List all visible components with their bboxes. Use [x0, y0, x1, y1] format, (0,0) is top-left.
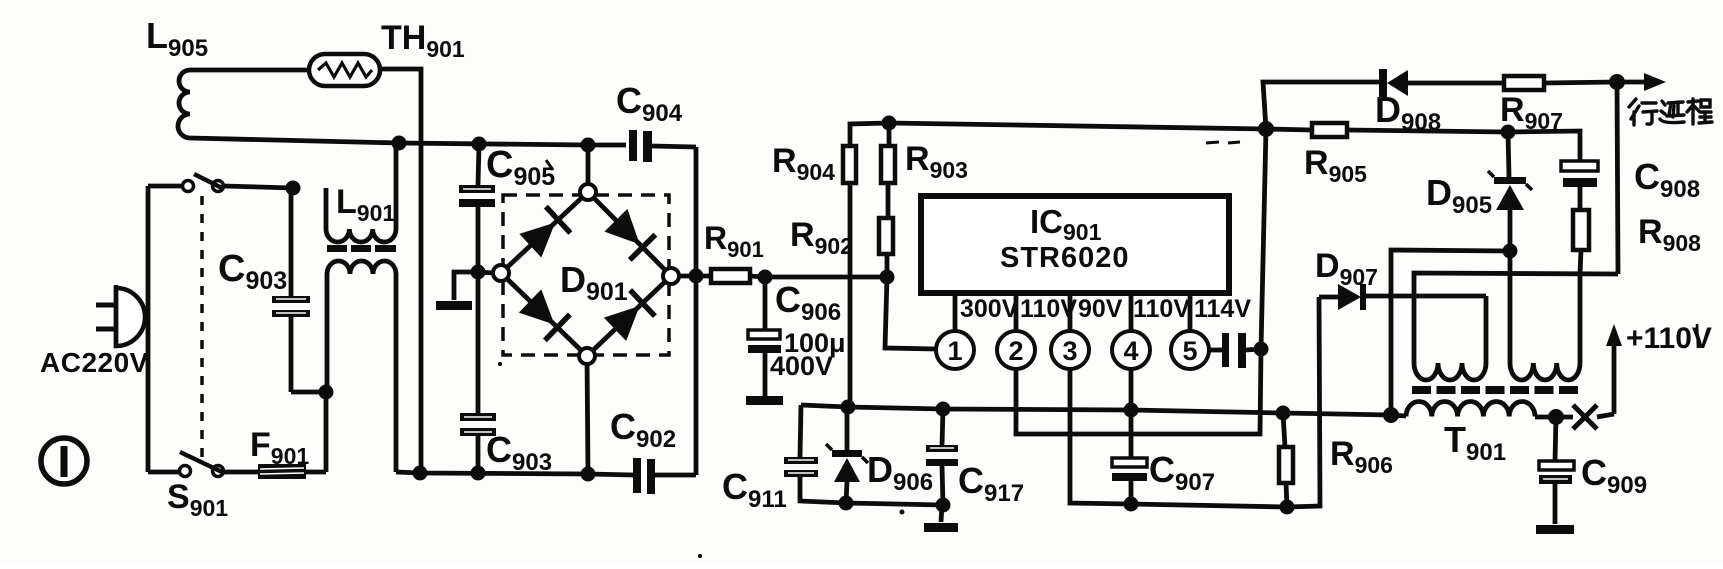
- junction dot (D905 anode): [1503, 244, 1518, 259]
- resistor R907: [1504, 76, 1617, 90]
- svg-text:+110V: +110V: [1626, 322, 1712, 355]
- label C909: [1581, 452, 1647, 499]
- junction dot (pin5 cap / vertical): [1254, 342, 1269, 357]
- chassis ground (C906): [746, 396, 783, 405]
- junction dot (bottom rail / bridge bottom): [581, 467, 596, 482]
- label R905: [1304, 144, 1367, 187]
- switch S901 bottom pole: [148, 452, 258, 477]
- svg-text:1: 1: [947, 336, 962, 366]
- pin voltage label 300V: [960, 295, 1019, 323]
- junction dot (TH901 / bottom rail): [413, 466, 428, 481]
- wire top feed line: [850, 123, 1266, 146]
- choke L901: [326, 143, 396, 472]
- chassis ground (bridge left): [436, 272, 478, 310]
- wire pin2 loop: [1016, 349, 1261, 434]
- junction dot (R906 / lower rail): [1280, 500, 1295, 515]
- svg-text:2: 2: [1008, 336, 1023, 366]
- wire D906 gnd to C917: [846, 503, 943, 505]
- resistor R906: [1279, 413, 1293, 507]
- label L901: [336, 183, 395, 226]
- IC901 STR6020 box: [921, 196, 1229, 293]
- label C903 (bridge): [486, 429, 552, 476]
- capacitor C908: [1508, 131, 1598, 210]
- junction dot (rail / C905): [472, 137, 487, 152]
- wire D905 anode to primary-left vertical: [1391, 250, 1510, 415]
- label C911: [722, 466, 787, 513]
- wire pin5 node vertical: [1261, 129, 1266, 349]
- pin 5: [1171, 293, 1209, 369]
- X mark on output wire: [1556, 405, 1614, 429]
- bridge rectifier D901 dashed box: [503, 195, 669, 355]
- wire AC bottom rail: [396, 472, 634, 475]
- junction dot (rail / bridge top): [581, 138, 596, 153]
- label +110V: [1626, 322, 1712, 355]
- resistor R903: [881, 123, 895, 218]
- bridge edge left-top with diode: [501, 192, 588, 273]
- resistor R908: [1573, 210, 1589, 274]
- zener diode D905: [1488, 132, 1532, 251]
- label D907: [1315, 247, 1378, 290]
- ground rail (lower right): [1131, 297, 1320, 507]
- transformer T901 secondary winding (right): [1510, 363, 1580, 380]
- bridge right vertex: [663, 268, 679, 284]
- label R907: [1500, 91, 1563, 134]
- switch gang dashed link: [200, 196, 204, 457]
- svg-text:AC220V: AC220V: [40, 347, 149, 378]
- transformer T901 secondary winding (left): [1414, 363, 1486, 380]
- pin 1: [936, 293, 974, 369]
- wire D905 node to secondary: [1508, 251, 1513, 363]
- wire R908 node to secondary: [1578, 274, 1583, 363]
- pin voltage label 114V: [1194, 295, 1251, 323]
- svg-text:300V: 300V: [960, 295, 1019, 323]
- +110V output arrow: [1606, 324, 1622, 414]
- label IC901: [1030, 203, 1102, 245]
- svg-text:110V: 110V: [1020, 295, 1077, 323]
- label AC220V: [40, 347, 149, 378]
- label D906: [867, 449, 933, 496]
- capacitor C903 (bridge input): [460, 272, 496, 473]
- capacitor C906 electrolytic: [748, 277, 781, 396]
- label C907: [1149, 449, 1215, 496]
- capacitor C909 electrolytic: [1539, 417, 1574, 524]
- junction dot (C917 bottom): [936, 498, 951, 513]
- junction dot (primary right / C909): [1548, 409, 1564, 425]
- capacitor C904: [629, 130, 696, 162]
- label STR6020: [1000, 242, 1130, 274]
- svg-text:110V: 110V: [1133, 295, 1190, 323]
- transformer T901 core: [1412, 386, 1578, 394]
- junction dot (C905 / bridge left / C903): [471, 265, 486, 280]
- svg-text:STR6020: STR6020: [1000, 242, 1130, 274]
- label R904: [772, 142, 835, 185]
- degaussing coil L905: [178, 70, 190, 138]
- svg-text:3: 3: [1062, 336, 1077, 366]
- label R906: [1330, 435, 1393, 478]
- bridge left vertex: [493, 265, 509, 281]
- wire pin4 to rail: [1129, 369, 1134, 410]
- chassis ground (C917): [924, 505, 958, 532]
- wire pin1 to R902 node: [885, 277, 936, 349]
- wire left mains rail: [146, 186, 151, 472]
- ground rail (middle): [801, 405, 1391, 415]
- switch S901 top pole: [148, 174, 293, 192]
- wire to bridge left vertex: [478, 272, 494, 273]
- transformer T901 primary winding: [1391, 401, 1556, 417]
- bridge edge top-right with diode: [588, 192, 671, 276]
- junction dot (C903 / L901 / fuse): [319, 385, 334, 400]
- junction dot (rail / pin4 / C907): [1124, 403, 1139, 418]
- bridge bottom vertex: [579, 348, 595, 474]
- pin 2: [997, 293, 1035, 369]
- resistor R905: [1266, 123, 1508, 137]
- junction dot (R901 out / C906): [758, 270, 773, 285]
- label R902: [790, 216, 853, 259]
- bridge edge bottom-right with diode: [587, 276, 671, 356]
- resistor R904: [843, 146, 856, 407]
- capacitor C903 (line filter): [272, 190, 326, 392]
- label 100u: [784, 328, 846, 358]
- junction dot (R905 wire / D905): [1501, 125, 1516, 140]
- junction dot (switch / C903): [286, 181, 301, 196]
- bridge edge left-bottom with diode: [501, 273, 587, 356]
- power symbol (circle with I): [41, 438, 87, 484]
- pin 3: [1051, 293, 1089, 369]
- capacitor C911: [784, 405, 846, 503]
- label T901: [1444, 419, 1506, 466]
- wire degauss top: [190, 68, 309, 73]
- label 400V: [770, 351, 833, 381]
- wire flyback node vertical: [1617, 82, 1618, 274]
- svg-text:4: 4: [1123, 336, 1138, 366]
- label C903: [218, 248, 287, 295]
- zener diode D906: [826, 407, 868, 503]
- svg-text:114V: 114V: [1194, 295, 1251, 323]
- diode D907: [1319, 284, 1486, 310]
- label flyback retrace (hand-drawn CJK): [1629, 99, 1712, 125]
- wire retrace bus (y274): [1414, 273, 1618, 363]
- resistor R902: [879, 218, 893, 277]
- junction dot (C904 vertical / R901): [689, 269, 704, 284]
- capacitor pin5 bypass: [1209, 333, 1261, 368]
- junction dot (D906 anode / gnd wire): [839, 496, 854, 511]
- label S901: [167, 478, 228, 521]
- wire thermistor to bottom rail: [380, 69, 421, 473]
- capacitor C905: [459, 144, 495, 272]
- chassis ground (C909): [1536, 525, 1574, 534]
- svg-text:5: 5: [1182, 336, 1197, 366]
- wire C904/C902 right vertical: [694, 147, 699, 475]
- pin voltage label 110V: [1020, 295, 1077, 323]
- label C906: [775, 279, 841, 326]
- wire mains rail to bridge: [190, 138, 626, 145]
- label D908: [1375, 89, 1441, 136]
- wire pin3 to ground rail: [1070, 369, 1131, 504]
- thermistor TH901: [309, 54, 380, 86]
- junction dot (rail / R906): [1276, 406, 1291, 421]
- bridge top vertex: [580, 145, 596, 200]
- junction dot (feed / R903): [882, 116, 897, 131]
- label R903: [905, 140, 968, 183]
- pin voltage label 110V: [1133, 295, 1190, 323]
- label C905: [486, 144, 555, 191]
- flyback output node with arrow: [1609, 73, 1666, 91]
- pin voltage label 90V: [1078, 295, 1123, 323]
- AC plug: [96, 285, 150, 348]
- junction dot (ground rail / primary left): [1383, 407, 1399, 423]
- fuse F901: [258, 392, 326, 479]
- junction dot (R902 / pin1 wire): [880, 270, 895, 285]
- junction dot (feed / R905 / D908 / pin5 vert): [1258, 121, 1274, 137]
- label C904: [616, 80, 683, 127]
- svg-text:400V: 400V: [770, 351, 833, 381]
- svg-text:90V: 90V: [1078, 295, 1123, 323]
- pin 4: [1112, 293, 1150, 369]
- scan artifacts: [498, 142, 1240, 558]
- label C908: [1634, 156, 1700, 203]
- junction dot (L901 top / rail): [392, 136, 407, 151]
- resistor R901: [679, 269, 765, 283]
- label R908: [1638, 213, 1701, 256]
- label L905: [146, 15, 208, 62]
- label D905: [1426, 172, 1492, 219]
- label TH901: [381, 19, 465, 62]
- label D901: [560, 259, 628, 306]
- label C902: [610, 406, 676, 453]
- junction dot (rail / C917): [936, 402, 951, 417]
- capacitor C917: [926, 409, 958, 505]
- label F901: [250, 426, 309, 469]
- capacitor C907: [1112, 410, 1147, 504]
- wire D907 cathode down to secondary: [1484, 296, 1489, 363]
- label R901: [704, 220, 764, 262]
- capacitor C902: [633, 458, 696, 494]
- junction dot (C903 / bottom rail): [471, 466, 486, 481]
- diode D908: [1263, 69, 1504, 129]
- wire R901 output node: [765, 275, 887, 280]
- junction dot (rail / R904 / D906): [841, 400, 856, 415]
- label C917: [958, 460, 1024, 507]
- junction dot (C907 / lower rail): [1124, 497, 1139, 512]
